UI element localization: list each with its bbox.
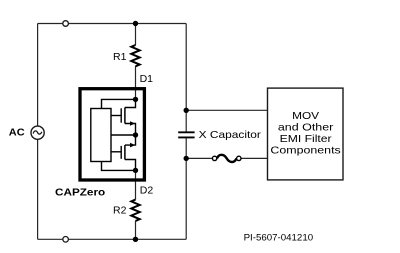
resistor R1 — [131, 45, 139, 66]
svg-text:CAPZero: CAPZero — [55, 187, 105, 199]
open terminal circle top wire — [63, 21, 69, 27]
X capacitor CX — [178, 132, 194, 137]
junction node D1 inside CAPZero — [133, 97, 138, 102]
line squiggle (flexible connection) — [217, 155, 236, 162]
wire right vertical lower (X capacitor to bottom wire) — [185, 137, 187, 239]
wire middle branch CAPZero D2 pin to R2 — [135, 170, 137, 199]
MOSFET Q1 (upper) — [111, 99, 136, 135]
svg-text:PI-5607-041210: PI-5607-041210 — [244, 232, 314, 243]
wire bottom (AC neutral) — [38, 238, 187, 240]
resistor R2 — [131, 200, 139, 221]
junction top wire / middle branch — [133, 21, 138, 26]
open terminal circle bottom wire — [63, 237, 69, 243]
CAPZero IC outline box — [80, 89, 144, 180]
wire middle branch R2 to bottom wire — [135, 221, 137, 239]
junction right wire / upper MOV tap — [184, 108, 189, 113]
wire node D1 to control block top — [102, 99, 136, 108]
wire middle node to control block right — [111, 134, 136, 136]
svg-text:AC: AC — [9, 126, 25, 138]
wire middle branch R1 to CAPZero D1 pin — [135, 66, 137, 99]
wire left vertical lower (AC to bottom wire) — [37, 139, 39, 239]
wire middle branch upper (top wire to R1) — [135, 24, 137, 46]
junction right wire / lower MOV tap — [184, 156, 189, 161]
svg-text:R1: R1 — [113, 51, 127, 63]
AC source — [31, 126, 44, 139]
MOV / EMI filter box — [268, 88, 344, 180]
control block inside CAPZero — [91, 109, 111, 162]
wire upper tap to MOV box — [186, 109, 267, 111]
junction middle node between Q1 and Q2 — [133, 132, 138, 137]
wire terminal to MOV box — [241, 157, 267, 159]
junction node D2 inside CAPZero — [133, 168, 138, 173]
svg-text:D1: D1 — [140, 73, 154, 85]
wire lower tap to terminal — [186, 157, 212, 159]
wire right vertical upper (top wire to X capacitor) — [185, 24, 187, 133]
wire top (AC hot to node A) — [38, 23, 187, 25]
svg-text:D2: D2 — [140, 185, 154, 197]
svg-text:Components: Components — [270, 145, 340, 157]
svg-text:and Other: and Other — [278, 122, 334, 134]
terminal circle right of line squiggle — [237, 156, 241, 160]
svg-text:R2: R2 — [113, 205, 127, 217]
svg-text:X Capacitor: X Capacitor — [199, 129, 262, 141]
svg-text:MOV: MOV — [292, 110, 319, 122]
MOSFET Q2 (lower) — [111, 135, 136, 170]
wire left vertical upper (AC to top wire) — [37, 24, 39, 127]
terminal circle left of line squiggle — [212, 156, 216, 160]
svg-text:EMI Filter: EMI Filter — [280, 133, 333, 145]
label MOV and Other EMI Filter Components — [270, 110, 340, 157]
wire node D2 to control block bottom — [102, 162, 136, 171]
junction bottom wire / middle branch — [133, 237, 138, 242]
